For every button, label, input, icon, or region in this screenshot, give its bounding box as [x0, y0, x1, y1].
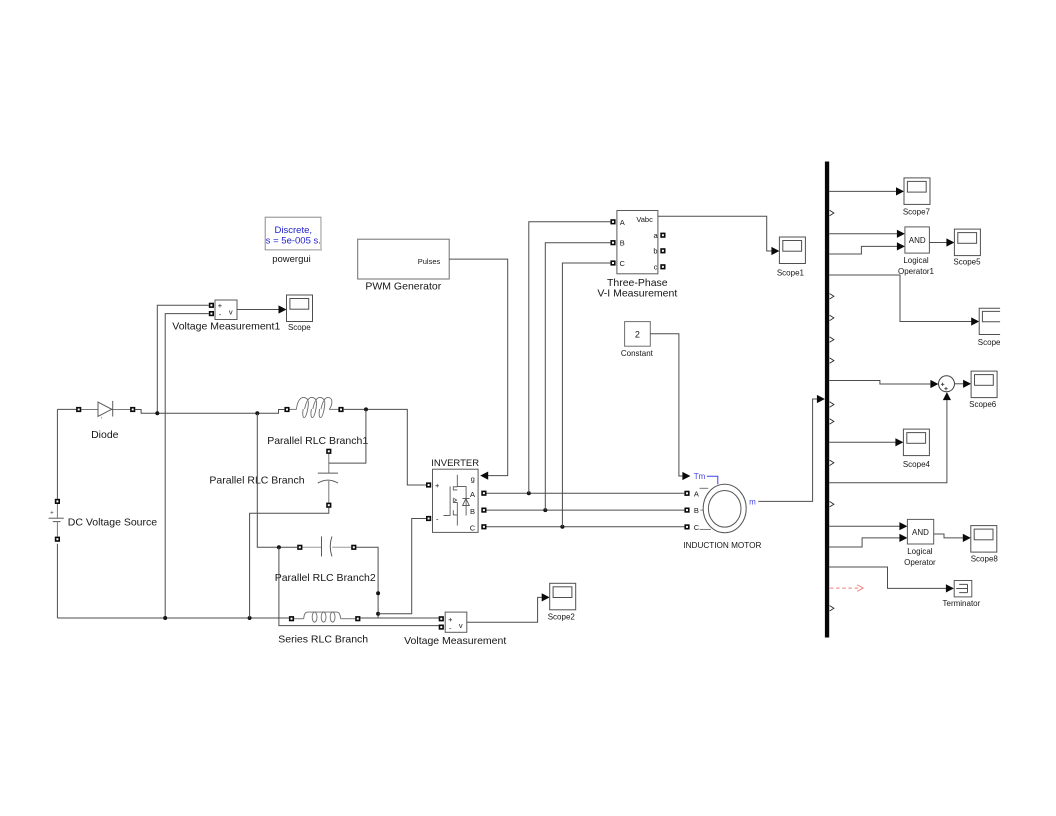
- wire bottom bus: [57, 617, 289, 619]
- wire demux to sum bottom input: [829, 392, 951, 483]
- induction motor (asynchronous machine): [684, 484, 746, 532]
- Scope6 label: [969, 400, 997, 409]
- Scope2 block: [550, 583, 576, 610]
- wire Vabc to Scope1: [658, 216, 780, 255]
- wire PWM Pulses to INVERTER g: [449, 259, 508, 480]
- svg-text:Scope8: Scope8: [971, 555, 999, 564]
- svg-text:v: v: [459, 621, 463, 630]
- diode Diode: [57, 401, 135, 419]
- Logical Operator label: [904, 547, 936, 567]
- Diode label: [91, 429, 119, 441]
- m output label (blue): [749, 498, 756, 507]
- svg-text:DC Voltage Source: DC Voltage Source: [68, 516, 157, 528]
- svg-text:powergui: powergui: [272, 254, 311, 265]
- svg-text:Operator1: Operator1: [898, 267, 935, 276]
- wire RLC1 output to INVERTER +: [344, 409, 426, 485]
- svg-text:+: +: [218, 301, 223, 310]
- powergui label: [272, 254, 311, 265]
- svg-text:Scope2: Scope2: [548, 613, 576, 622]
- demux unconnected output port 9: [830, 502, 834, 507]
- demux unconnected output port 6: [830, 402, 834, 407]
- svg-text:Scope: Scope: [978, 338, 1001, 347]
- Scope1 block: [779, 237, 805, 264]
- DC Voltage Source: [49, 409, 64, 618]
- sum block (add): [939, 376, 955, 392]
- inductor Series RLC Branch: [289, 612, 361, 622]
- wire cap top to RLC1 node: [329, 410, 366, 463]
- demux unconnected output port 10: [830, 606, 834, 611]
- svg-text:Scope6: Scope6: [969, 400, 997, 409]
- Voltage Measurement1 label: [172, 321, 280, 333]
- Tm input label (blue): [694, 472, 718, 484]
- svg-text:Scope: Scope: [288, 323, 311, 332]
- demux unconnected output port 7: [830, 419, 834, 424]
- svg-text:g: g: [471, 475, 475, 484]
- wire C to V-I measurement: [562, 263, 610, 527]
- Scope7 label: [903, 207, 931, 216]
- wire Constant to Tm: [650, 334, 690, 480]
- constant Constant value 2: [625, 322, 651, 347]
- Scope2 label: [548, 613, 576, 622]
- svg-text:c: c: [654, 263, 658, 272]
- wire demux to Scope3 (clipped): [829, 275, 979, 326]
- svg-text:Series RLC Branch: Series RLC Branch: [278, 634, 368, 646]
- Scope5 label: [953, 258, 981, 267]
- wire demux to Scope7: [829, 187, 904, 195]
- svg-text:m: m: [749, 498, 756, 507]
- svg-text:Voltage Measurement1: Voltage Measurement1: [172, 321, 280, 333]
- wire VM1 - input rail: [165, 314, 209, 618]
- svg-text:PWM Generator: PWM Generator: [365, 281, 441, 293]
- wire demux to Logical Operator1 input 2: [829, 242, 905, 254]
- wire A to V-I measurement: [529, 222, 611, 493]
- svg-text:Parallel RLC Branch1: Parallel RLC Branch1: [267, 435, 368, 447]
- junction bottom/cap return: [248, 616, 252, 620]
- Parallel RLC Branch1 label: [267, 435, 368, 447]
- wire cap bottom return: [250, 508, 329, 618]
- INVERTER block: [426, 469, 487, 532]
- svg-text:+: +: [435, 481, 440, 490]
- DC Voltage Source label: [68, 516, 157, 528]
- wire series output to VM +: [360, 617, 439, 619]
- Scope6 block: [971, 371, 997, 398]
- wire m output to demux: [758, 395, 825, 502]
- Series RLC Branch label: [278, 634, 368, 646]
- PWM Generator label: [365, 281, 441, 293]
- INDUCTION MOTOR label: [683, 541, 761, 550]
- Scope label: [288, 323, 311, 332]
- junction B: [543, 508, 547, 512]
- Three-Phase V-I Measurement label: [597, 277, 677, 300]
- svg-text:Operator: Operator: [904, 558, 936, 567]
- wire main column down to RLC2: [257, 413, 297, 547]
- junction RLC2 column lower: [376, 612, 380, 616]
- wire VM output to Scope2: [467, 593, 550, 622]
- wire demux to Logical Operator input 2: [829, 534, 907, 547]
- wire demux to Logical Operator input 1: [829, 522, 907, 530]
- inductor Parallel RLC Branch1: [284, 397, 343, 417]
- powergui block: [265, 217, 322, 250]
- svg-text:INVERTER: INVERTER: [431, 458, 479, 469]
- Scope4 block: [903, 429, 929, 456]
- wire VM1 + input rail: [157, 305, 209, 413]
- unconnected signal (red dashed): [830, 585, 863, 591]
- junction RLC1/cap top: [364, 407, 368, 411]
- svg-text:Scope5: Scope5: [953, 258, 981, 267]
- Scope4 label: [903, 460, 931, 469]
- svg-text:Scope4: Scope4: [903, 460, 931, 469]
- wire sum to Scope6: [955, 380, 972, 388]
- svg-text:Logical: Logical: [903, 256, 929, 265]
- wire INVERTER - return: [378, 519, 426, 614]
- wire demux to Scope4: [829, 438, 903, 446]
- Constant label: [621, 349, 654, 358]
- Scope3 label (clipped): [978, 338, 1001, 347]
- wire phase B: [487, 509, 685, 511]
- capacitor Parallel RLC Branch2: [297, 536, 356, 556]
- svg-text:v: v: [229, 308, 233, 317]
- demux unconnected output port 5: [830, 358, 834, 363]
- svg-text:Parallel RLC Branch2: Parallel RLC Branch2: [275, 572, 376, 584]
- terminator block: [954, 581, 972, 597]
- Scope block: [287, 295, 313, 322]
- junction bottom/VM1-: [163, 616, 167, 620]
- Logical Operator1 label: [898, 256, 935, 276]
- wire phase A: [487, 492, 685, 494]
- wire RLC2 output down: [356, 547, 378, 618]
- svg-text:C: C: [470, 523, 476, 532]
- Scope5 block: [954, 229, 980, 256]
- svg-text:Constant: Constant: [621, 349, 654, 358]
- wire Logical Operator to Scope8: [934, 534, 971, 542]
- Scope8 block: [971, 526, 997, 553]
- PWM Generator block: [358, 239, 450, 279]
- wire demux to Logical Operator1 input 1: [829, 230, 905, 238]
- svg-text:s = 5e-005 s.: s = 5e-005 s.: [266, 235, 321, 246]
- svg-text:B: B: [470, 507, 475, 516]
- junction RLC2 left: [277, 545, 281, 549]
- svg-text:AND: AND: [912, 528, 929, 537]
- svg-text:2: 2: [635, 329, 640, 339]
- svg-text:INDUCTION MOTOR: INDUCTION MOTOR: [683, 541, 761, 550]
- svg-text:A: A: [620, 218, 625, 227]
- svg-text:Pulses: Pulses: [418, 257, 441, 266]
- svg-text:B: B: [620, 239, 625, 248]
- demux unconnected output port 1: [830, 210, 834, 215]
- svg-text:Scope1: Scope1: [777, 268, 805, 277]
- svg-text:AND: AND: [909, 236, 926, 245]
- Scope1 label: [777, 268, 805, 277]
- Voltage Measurement block: [439, 612, 467, 632]
- demux bus bar: [825, 162, 829, 638]
- Three-Phase V-I Measurement block: [610, 211, 665, 274]
- svg-text:V-I Measurement: V-I Measurement: [597, 288, 677, 300]
- Parallel RLC Branch2 label: [275, 572, 376, 584]
- wire B to V-I measurement: [545, 243, 610, 510]
- Voltage Measurement1 block: [209, 300, 237, 320]
- INVERTER label: [431, 458, 479, 469]
- demux unconnected output port 4: [830, 337, 834, 342]
- wire diode output to node row: [135, 410, 284, 414]
- junction A: [527, 491, 531, 495]
- svg-text:Terminator: Terminator: [943, 599, 981, 608]
- svg-text:Vabc: Vabc: [636, 215, 653, 224]
- svg-text:Scope7: Scope7: [903, 207, 931, 216]
- svg-text:Diode: Diode: [91, 429, 119, 441]
- wire phase C: [487, 526, 685, 528]
- junction RLC2 column upper: [376, 591, 380, 595]
- wire VM - return: [279, 547, 439, 625]
- demux unconnected output port 3: [830, 315, 834, 320]
- wire demux to Terminator: [829, 567, 954, 593]
- svg-text:B: B: [694, 506, 699, 515]
- logical operator AND U1 (Logical Operator1): [905, 227, 930, 253]
- wire VM1 output to Scope: [237, 305, 287, 313]
- demux unconnected output port 2: [830, 294, 834, 299]
- Terminator label: [943, 599, 981, 608]
- junction C: [560, 525, 564, 529]
- svg-text:C: C: [619, 259, 625, 268]
- svg-text:b: b: [653, 247, 657, 256]
- svg-text:Voltage Measurement: Voltage Measurement: [404, 635, 506, 647]
- logical operator AND U2 (Logical Operator): [907, 519, 933, 544]
- svg-text:A: A: [694, 489, 699, 498]
- svg-text:A: A: [470, 490, 475, 499]
- Scope8 label: [971, 555, 999, 564]
- Voltage Measurement label: [404, 635, 506, 647]
- junction node diode/VM1: [155, 411, 159, 415]
- capacitor Parallel RLC Branch: [318, 449, 338, 508]
- demux unconnected output port 8: [830, 460, 834, 465]
- junction node main column: [255, 411, 259, 415]
- svg-text:+: +: [50, 509, 54, 516]
- svg-text:C: C: [694, 523, 700, 532]
- wire Logical Operator1 to Scope5: [929, 238, 954, 246]
- Scope7 block: [904, 178, 930, 205]
- Parallel RLC Branch label: [209, 474, 304, 486]
- wire demux to sum block: [829, 380, 938, 388]
- svg-text:Logical: Logical: [907, 547, 933, 556]
- svg-text:Tm: Tm: [694, 472, 706, 481]
- Scope3 block (clipped at canvas edge): [979, 308, 1000, 334]
